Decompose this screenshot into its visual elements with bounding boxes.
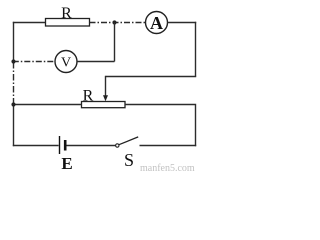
wire: bottom rail left segment to battery	[13, 145, 59, 147]
wire: left vertical lower (mid-rail junction to bottom rail)	[13, 103, 15, 146]
battery E: long thin plate	[59, 136, 61, 154]
wire: voltmeter right then up to top junction	[77, 23, 115, 62]
wire: switch to bottom-right corner	[140, 145, 197, 147]
svg-text:E: E	[61, 154, 72, 173]
wire: resistor R to ammeter (dash-dot in scan)	[90, 22, 146, 24]
wire: slider vertical drop	[105, 76, 107, 96]
svg-text:R: R	[61, 5, 72, 22]
wire: mid rail from left vertical to rheostat	[13, 104, 82, 106]
rheostat slider arrow	[103, 95, 108, 101]
wire: left vertical upper (top corner to voltmeter junction)	[13, 22, 15, 62]
switch S: open blade	[119, 137, 138, 145]
svg-text:manfen5.com: manfen5.com	[140, 163, 195, 174]
wire: left vertical middle (voltmeter junction to mid-rail junction, dash-dot in scan)	[13, 62, 15, 103]
ammeter A	[146, 12, 168, 34]
svg-text:V: V	[61, 55, 71, 70]
svg-text:A: A	[150, 13, 163, 33]
node: junction on left vertical at voltmeter branch	[11, 59, 15, 63]
wire: rheostat right terminal to right side and down	[125, 104, 196, 146]
switch S: pivot circle	[116, 144, 119, 147]
wire: right vertical from ammeter down to slider wire	[195, 22, 197, 77]
battery E: short thick plate	[64, 140, 67, 151]
rheostat R (variable resistor)	[82, 102, 126, 108]
wire: battery to switch	[66, 145, 115, 147]
svg-text:R: R	[83, 88, 94, 105]
node: junction on left vertical at mid rail	[11, 102, 15, 106]
wire: voltmeter branch left (dash-dot in scan)	[13, 61, 55, 63]
resistor R (fixed, top branch)	[46, 19, 90, 27]
voltmeter V	[55, 51, 77, 73]
wire: top-left horizontal to resistor R	[13, 22, 46, 24]
wire: slider horizontal wire	[106, 76, 197, 78]
node: junction of voltmeter branch on top wire	[112, 20, 116, 24]
wire: ammeter to top-right corner	[168, 22, 197, 24]
svg-text:S: S	[124, 150, 134, 170]
